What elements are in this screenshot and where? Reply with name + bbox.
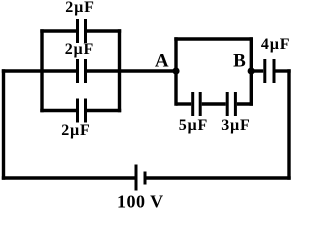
wire: left rectangle left vertical [40, 29, 43, 112]
svg-text:4µF: 4µF [261, 36, 290, 53]
svg-text:100 V: 100 V [117, 192, 164, 212]
svg-text:2µF: 2µF [61, 122, 90, 139]
capacitor C1 2uF (top) plates [76, 19, 79, 43]
capacitor C5 3uF plates [226, 92, 229, 116]
svg-text:A: A [155, 51, 169, 72]
svg-text:5µF: 5µF [179, 117, 208, 134]
wire: A vertical (node A up to top wire, down to bottom branch) [174, 37, 177, 105]
wire: outer right vertical [287, 69, 290, 179]
battery V1 long plate [135, 165, 138, 191]
wire: node B to 4uF left plate [251, 69, 263, 72]
wire: bottom right segment from battery to right corner [146, 176, 290, 179]
wire: left rectangle top side (right part) [87, 29, 121, 32]
wire: outer left vertical [2, 69, 5, 179]
wire: A-B loop top side [174, 37, 252, 40]
wire: middle horizontal right segment from C2 right plate to node A [87, 69, 176, 72]
wire: left rectangle bottom side (right part) [87, 109, 121, 112]
capacitor C4 5uF plates [191, 92, 194, 116]
wire: bottom branch A to 5uF [176, 102, 191, 105]
svg-text:2µF: 2µF [65, 0, 94, 16]
svg-text:3µF: 3µF [221, 117, 250, 134]
node A junction dot [172, 67, 179, 74]
battery V1 short plate [144, 172, 147, 185]
wire: middle horizontal left segment from outer left wire to C2 left plate [2, 69, 76, 72]
wire: B vertical (node B up to top wire, down to bottom branch) [250, 37, 253, 105]
capacitor C2 2uF (middle) plates [76, 59, 79, 83]
svg-text:2µF: 2µF [65, 41, 94, 58]
wire: left rectangle top side (left part) [40, 29, 76, 32]
wire: bottom branch between 5uF and 3uF [202, 102, 226, 105]
capacitor C6 4uF plates [263, 59, 266, 83]
wire: left rectangle bottom side (left part) [40, 109, 76, 112]
wire: left rectangle right vertical [118, 29, 121, 112]
wire: bottom left segment to battery [2, 176, 135, 179]
capacitor C3 2uF (bottom) plates [76, 99, 79, 123]
wire: right top segment from 4uF right plate to right corner [276, 69, 291, 72]
node B junction dot [248, 67, 255, 74]
wire: bottom branch 3uF to B [237, 102, 253, 105]
svg-text:B: B [233, 51, 246, 72]
